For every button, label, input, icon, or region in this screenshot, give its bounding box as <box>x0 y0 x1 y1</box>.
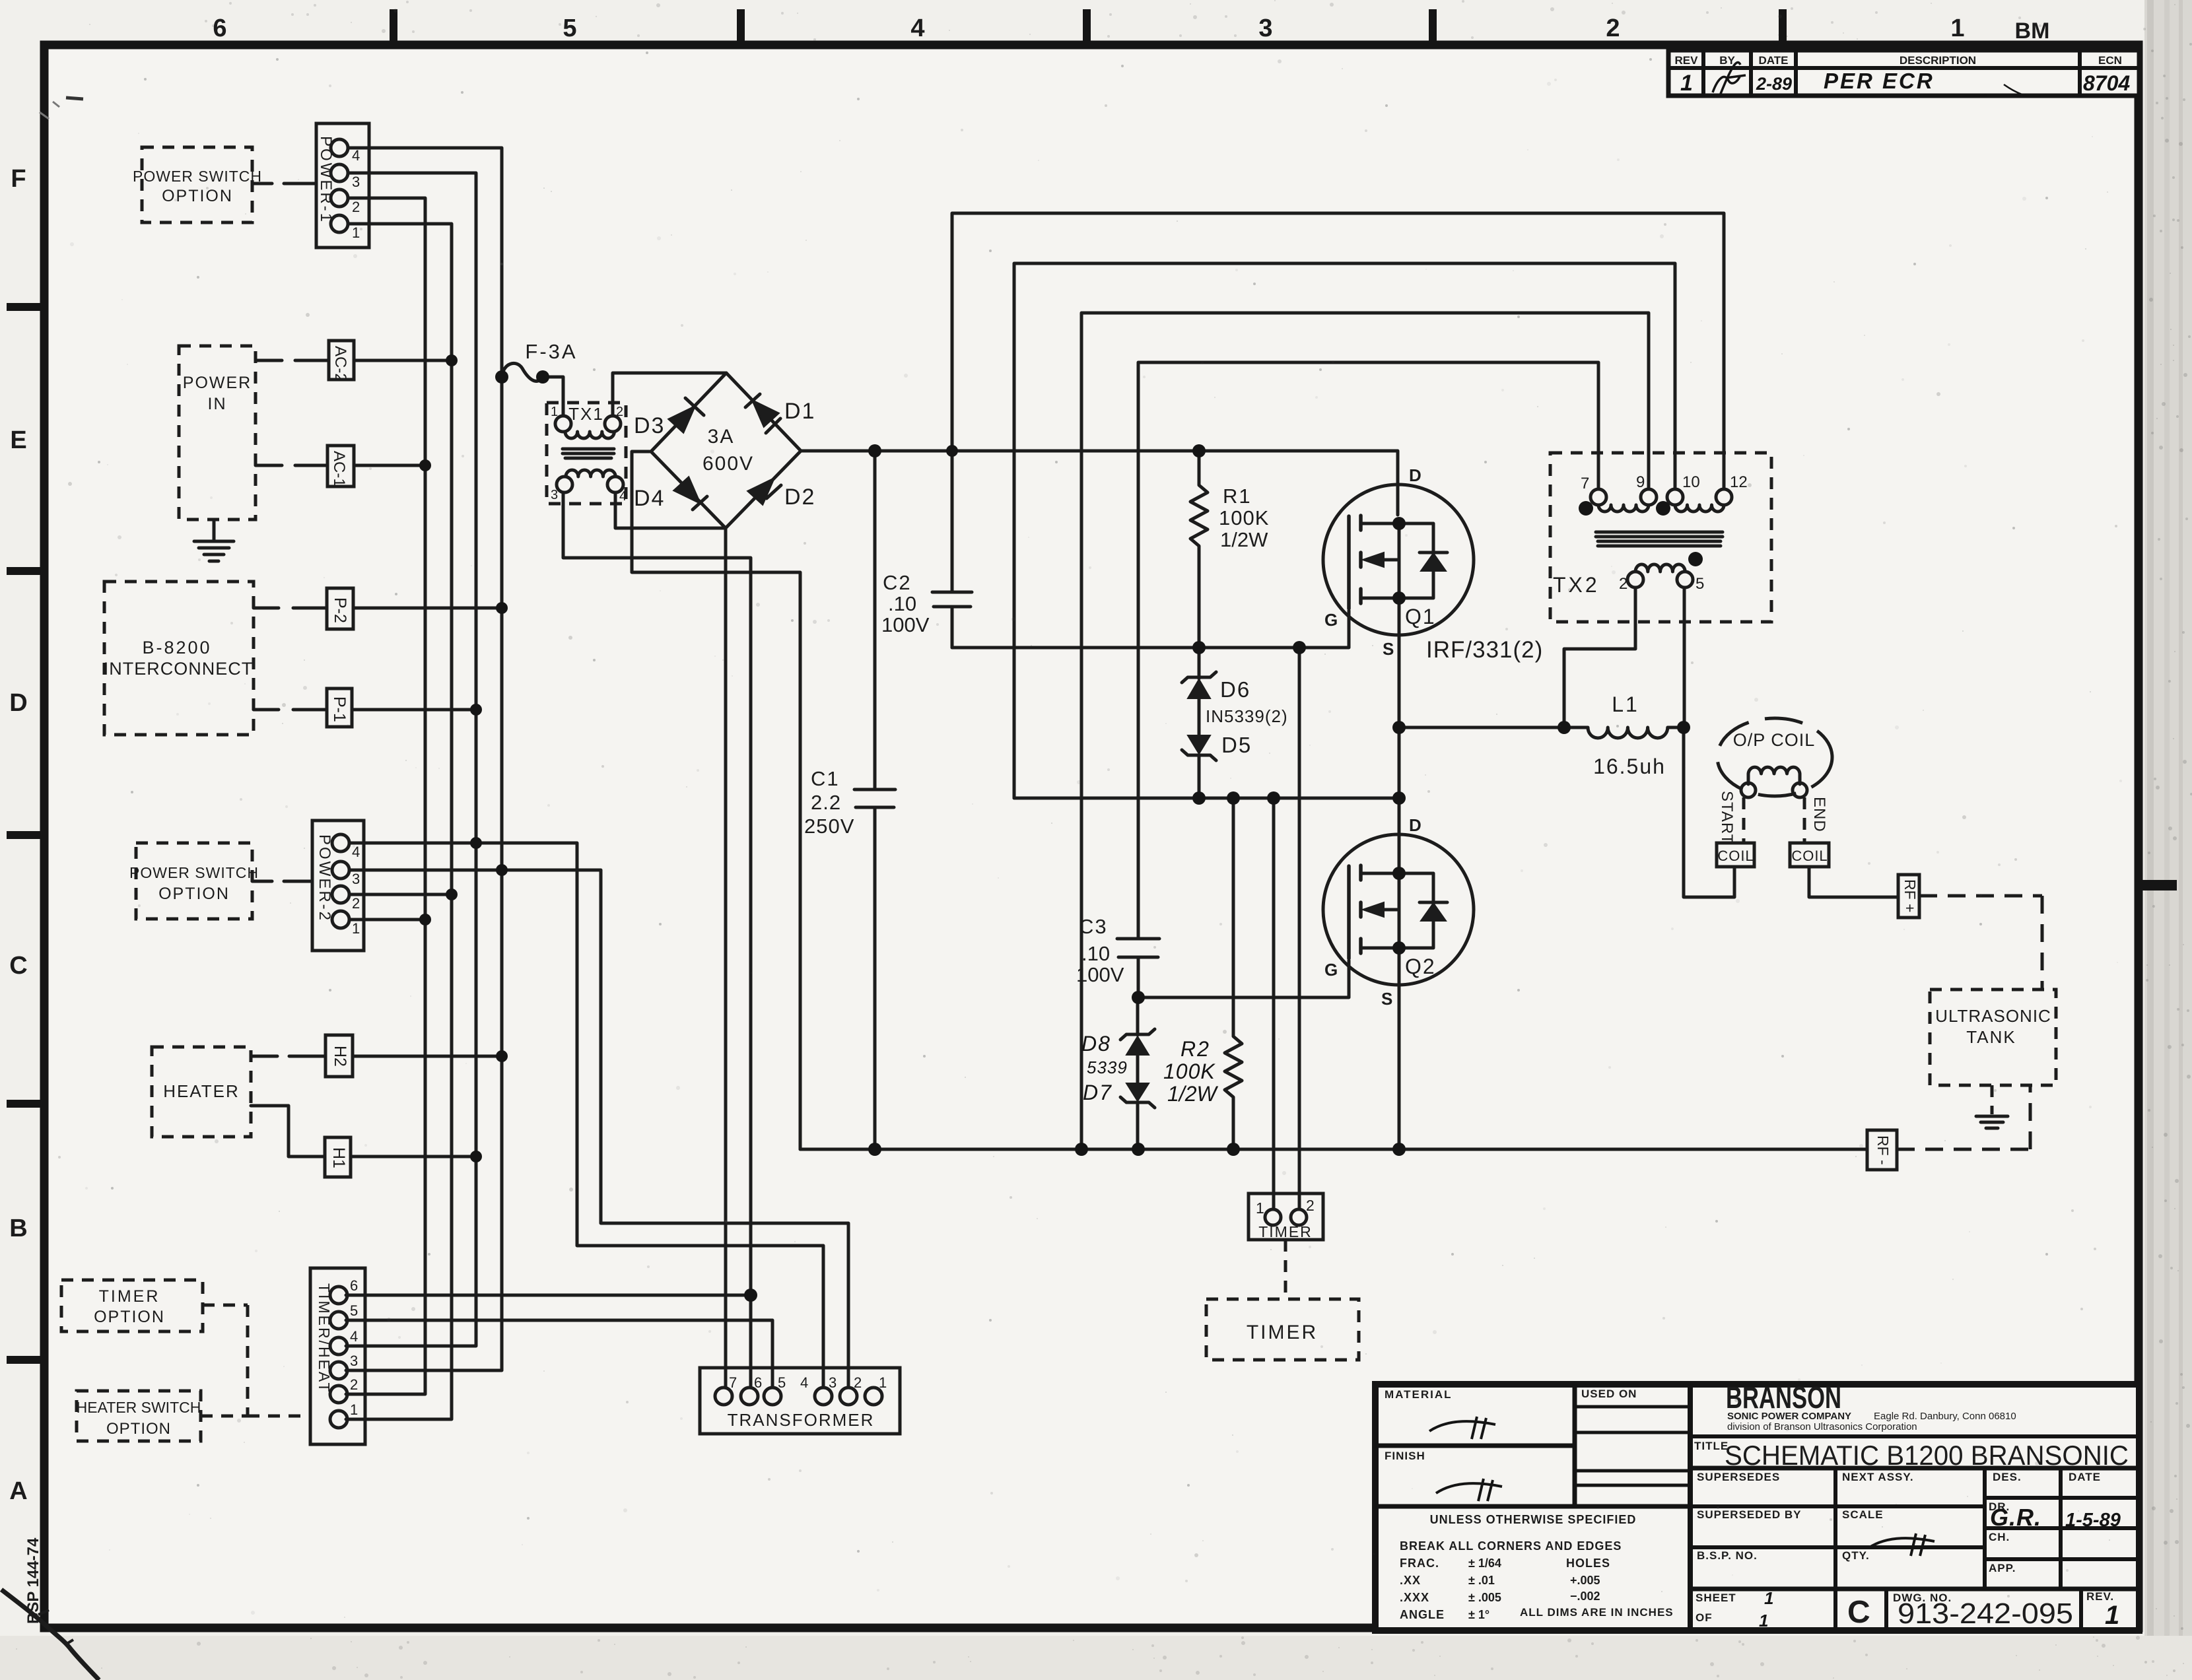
wire AC-1 to bus <box>354 464 425 467</box>
svg-text:HEATER: HEATER <box>163 1081 240 1101</box>
wire POWER-1 pin3 net <box>346 173 476 1346</box>
wire TX1 pin4 to bridge bottom <box>615 492 726 528</box>
svg-text:5339: 5339 <box>1087 1058 1128 1077</box>
svg-text:TIMER: TIMER <box>99 1287 160 1306</box>
terminal P-1 <box>327 689 352 727</box>
HEATER SWITCH OPTION box <box>77 1391 201 1441</box>
svg-text:5: 5 <box>350 1302 358 1319</box>
svg-text:9: 9 <box>1636 473 1645 491</box>
svg-text:TX1: TX1 <box>568 404 604 424</box>
svg-text:C: C <box>9 952 27 980</box>
svg-text:G: G <box>1324 610 1338 630</box>
svg-text:AC-1: AC-1 <box>330 451 348 487</box>
svg-text:1: 1 <box>2105 1601 2119 1630</box>
svg-text:1: 1 <box>352 224 360 241</box>
capacitor C1 <box>804 451 895 1149</box>
svg-text:1: 1 <box>879 1374 887 1391</box>
svg-text:C: C <box>1847 1595 1870 1630</box>
transformer TX2 dashed box <box>1550 453 1771 622</box>
terminal H2 <box>325 1035 353 1077</box>
svg-text:D1: D1 <box>784 399 815 424</box>
diode D1 <box>745 394 815 433</box>
svg-text:USED ON: USED ON <box>1581 1388 1637 1400</box>
svg-text:3: 3 <box>551 488 558 502</box>
svg-text:F-3A: F-3A <box>525 340 577 363</box>
COIL terminal box start <box>1717 843 1754 867</box>
svg-text:913-242-095: 913-242-095 <box>1898 1597 2073 1630</box>
right column lines <box>1983 1468 1987 1589</box>
zone tick top 5/4 <box>737 9 745 41</box>
svg-text:SUPERSEDED BY: SUPERSEDED BY <box>1697 1508 1801 1521</box>
svg-text:POWER-2: POWER-2 <box>316 834 333 922</box>
wire POWER-2 pin2 to bus <box>349 893 452 896</box>
TIMER OPTION box <box>61 1280 203 1331</box>
svg-text:+.005: +.005 <box>1570 1574 1600 1587</box>
svg-text:SUPERSEDES: SUPERSEDES <box>1697 1471 1780 1483</box>
dashed link to TIMER option box <box>1284 1240 1287 1299</box>
scan crease bottom left <box>1 1590 99 1680</box>
wire TIMER/HEAT pin5 to transformer pin5 <box>346 1320 772 1388</box>
END lead dashed <box>1803 797 1806 843</box>
svg-text:3: 3 <box>1258 15 1272 42</box>
svg-text:4: 4 <box>352 147 360 164</box>
svg-text:600V: 600V <box>702 453 754 475</box>
svg-text:± 1/64: ± 1/64 <box>1468 1557 1501 1570</box>
svg-text:OPTION: OPTION <box>94 1308 165 1326</box>
svg-text:DATE: DATE <box>1758 54 1788 67</box>
TX2 phase dot secondary <box>1688 552 1703 566</box>
svg-text:4: 4 <box>350 1328 358 1345</box>
svg-text:E: E <box>10 426 26 454</box>
svg-text:ULTRASONIC: ULTRASONIC <box>1935 1006 2051 1026</box>
wire POWER-2 pin4 to transformer pin3 <box>349 843 823 1388</box>
svg-text:QTY.: QTY. <box>1842 1549 1870 1562</box>
DC minus bus <box>800 1148 1867 1151</box>
wire POWER IN to AC-1 <box>256 464 327 467</box>
svg-text:UNLESS OTHERWISE SPECIFIED: UNLESS OTHERWISE SPECIFIED <box>1430 1513 1637 1526</box>
used-on column rows <box>1575 1405 1690 1409</box>
svg-text:IRF/331(2): IRF/331(2) <box>1426 637 1543 663</box>
svg-text:TIMER/HEAT: TIMER/HEAT <box>316 1283 333 1394</box>
svg-text:D8: D8 <box>1081 1032 1111 1056</box>
svg-text:REV: REV <box>1675 54 1699 67</box>
ULTRASONIC TANK box <box>1930 990 2056 1085</box>
svg-text:D2: D2 <box>784 485 815 510</box>
svg-text:2: 2 <box>350 1376 358 1393</box>
wire Q2 source to DC minus bus <box>1398 948 1401 1149</box>
material/finish column dividers <box>1573 1384 1577 1506</box>
svg-text:2: 2 <box>854 1374 862 1391</box>
svg-text:ANGLE: ANGLE <box>1400 1608 1445 1621</box>
svg-text:2: 2 <box>616 405 623 419</box>
svg-text:3: 3 <box>352 174 360 190</box>
svg-text:POWER SWITCH: POWER SWITCH <box>129 864 259 881</box>
wire TX1 pin3 to transformer pin6 <box>563 492 751 1388</box>
connector POWER-1 <box>316 123 369 248</box>
svg-text:B-8200: B-8200 <box>142 638 211 657</box>
diode D3 <box>634 398 704 438</box>
svg-text:TANK: TANK <box>1966 1027 2016 1047</box>
wire TX2 pin5 to L1 right <box>1683 588 1686 727</box>
svg-text:TIMER: TIMER <box>1247 1322 1318 1343</box>
wire COIL end to RF+ <box>1809 867 1898 897</box>
B-8200 INTERCONNECT box <box>104 582 254 735</box>
svg-text:C3: C3 <box>1079 915 1108 938</box>
O/P coil winding <box>1741 767 1807 797</box>
zener D7 <box>1083 1081 1155 1149</box>
O/P COIL dashed ellipse <box>1717 718 1832 796</box>
zone tick right <box>2139 880 2177 890</box>
wire bridge bottom to transformer pin7 <box>724 528 728 1388</box>
dashed RF+ to tank <box>1919 896 2042 990</box>
diode D4 <box>634 477 707 511</box>
svg-text:2: 2 <box>1306 1197 1315 1214</box>
svg-text:OPTION: OPTION <box>162 187 233 205</box>
svg-text:Q2: Q2 <box>1405 955 1436 978</box>
zone tick top 2/1 <box>1779 9 1787 41</box>
wire PSO2 to POWER-2 <box>252 880 312 883</box>
svg-text:INTERCONNECT: INTERCONNECT <box>104 659 254 679</box>
DC plus bus to Q1 drain <box>801 451 1398 515</box>
svg-text:TIMER: TIMER <box>1258 1223 1313 1240</box>
svg-text:1/2W: 1/2W <box>1220 528 1268 551</box>
zener D5 <box>1182 733 1252 798</box>
svg-text:COIL: COIL <box>1717 848 1754 864</box>
wire HEATER to H2 <box>252 1055 325 1058</box>
TX2 phase dot pin10 <box>1656 501 1670 516</box>
svg-text:2: 2 <box>1606 15 1620 42</box>
svg-text:5: 5 <box>778 1374 786 1391</box>
svg-text:D4: D4 <box>634 486 665 511</box>
wire POWER-1 pin1 net <box>346 224 452 1419</box>
svg-text:4: 4 <box>800 1374 808 1391</box>
signature squiggle finish <box>1436 1479 1502 1501</box>
svg-text:3: 3 <box>829 1374 837 1391</box>
zone tick left B/A <box>7 1356 40 1364</box>
zone tick top 3/2 <box>1429 9 1437 41</box>
svg-text:R1: R1 <box>1223 485 1252 508</box>
svg-text:OPTION: OPTION <box>106 1420 171 1438</box>
terminal AC-2 <box>329 341 354 382</box>
svg-text:3: 3 <box>350 1353 358 1369</box>
transformer TX1 <box>547 403 627 504</box>
svg-text:.10: .10 <box>1081 942 1110 965</box>
svg-text:1: 1 <box>1950 15 1964 42</box>
svg-text:2.2: 2.2 <box>811 791 841 814</box>
TX2 phase dot pin7 <box>1579 501 1593 516</box>
zener D6 <box>1182 648 1250 735</box>
MOSFET Q1 <box>1323 465 1474 659</box>
svg-text:COIL: COIL <box>1791 848 1828 864</box>
svg-text:4: 4 <box>910 15 924 42</box>
revision table <box>1668 50 2139 97</box>
svg-text:1-5-89: 1-5-89 <box>2065 1510 2121 1531</box>
zener D8 <box>1081 997 1155 1083</box>
svg-text:1/2W: 1/2W <box>1167 1082 1218 1106</box>
wire POWER-1 pin2 net <box>346 198 425 1394</box>
dashed link timer option to timer/heat <box>201 1305 310 1416</box>
svg-text:POWER-1: POWER-1 <box>317 136 335 224</box>
svg-text:8704: 8704 <box>2083 71 2130 95</box>
TIMER option box (dashed) <box>1206 1299 1359 1360</box>
ground for POWER IN <box>194 520 234 561</box>
connector TIMER/HEAT <box>310 1268 365 1444</box>
svg-text:DES.: DES. <box>1993 1471 2022 1483</box>
wire timer pin1 drop <box>1272 798 1276 1209</box>
terminal AC-1 <box>327 446 354 487</box>
svg-text:12: 12 <box>1730 473 1748 491</box>
svg-text:S: S <box>1383 639 1394 659</box>
svg-text:BREAK ALL CORNERS AND EDGES: BREAK ALL CORNERS AND EDGES <box>1400 1539 1622 1553</box>
svg-text:D5: D5 <box>1221 733 1252 757</box>
POWER SWITCH OPTION box (top) <box>133 147 262 222</box>
svg-text:6: 6 <box>754 1374 762 1391</box>
svg-text:CH.: CH. <box>1989 1531 2010 1543</box>
svg-text:S: S <box>1381 989 1392 1009</box>
wire TX1 pin2 to bridge top <box>613 373 726 416</box>
terminal RF- <box>1867 1130 1897 1170</box>
middle column lines <box>1690 1504 1985 1508</box>
TIMER terminal box <box>1249 1193 1323 1240</box>
svg-text:F: F <box>11 165 26 193</box>
fuse F-3A <box>502 340 578 381</box>
svg-text:B.S.P. NO.: B.S.P. NO. <box>1697 1549 1758 1562</box>
svg-text:.XX: .XX <box>1400 1574 1421 1587</box>
wire TIMER/HEAT pin6 to transformer pin6 wire <box>346 1294 751 1297</box>
smudge top left <box>66 98 83 99</box>
capacitor C3 <box>1076 915 1159 997</box>
wire H1 to bus <box>351 1155 476 1159</box>
dashed RF- to tank <box>1897 1085 2030 1149</box>
zone tick top 4/3 <box>1083 9 1091 41</box>
POWER IN box <box>179 346 256 520</box>
svg-text:BM: BM <box>2015 18 2050 44</box>
tank ground <box>1976 1085 2008 1128</box>
svg-text:7: 7 <box>729 1374 737 1391</box>
wire PSO1 to POWER-1 <box>252 182 316 185</box>
svg-text:D6: D6 <box>1220 677 1250 702</box>
svg-text:D: D <box>9 689 27 717</box>
zone tick left D/C <box>7 831 40 839</box>
wire POWER IN to AC-2 <box>256 359 329 362</box>
wire H2 to bus <box>353 1055 502 1058</box>
resistor R2 <box>1163 798 1242 1149</box>
svg-text:TRANSFORMER: TRANSFORMER <box>728 1410 875 1430</box>
svg-text:BRANSON: BRANSON <box>1726 1380 1841 1415</box>
svg-text:H2: H2 <box>331 1046 349 1067</box>
svg-text:FINISH: FINISH <box>1385 1450 1425 1462</box>
svg-text:G: G <box>1324 960 1338 980</box>
connector TRANSFORMER <box>700 1368 900 1434</box>
svg-text:D3: D3 <box>634 413 665 438</box>
wire HEATER to H1 <box>251 1106 325 1157</box>
svg-text:division of Branson Ultrasonic: division of Branson Ultrasonics Corporat… <box>1727 1421 1917 1432</box>
svg-text:5: 5 <box>563 15 576 42</box>
svg-text:OPTION: OPTION <box>158 885 230 903</box>
HEATER box <box>152 1047 251 1137</box>
zone tick left E/D <box>7 567 40 575</box>
svg-text:C2: C2 <box>883 571 912 594</box>
svg-text:1: 1 <box>551 405 558 419</box>
svg-text:PER ECR: PER ECR <box>1824 69 1935 93</box>
svg-text:16.5uh: 16.5uh <box>1593 755 1666 778</box>
svg-text:100V: 100V <box>1076 963 1124 986</box>
svg-text:D7: D7 <box>1083 1081 1113 1104</box>
svg-text:NEXT ASSY.: NEXT ASSY. <box>1842 1471 1914 1483</box>
svg-text:7: 7 <box>1581 475 1589 492</box>
svg-text:3: 3 <box>352 871 360 887</box>
svg-text:A: A <box>9 1477 27 1505</box>
svg-text:END: END <box>1810 797 1828 832</box>
bottom scan band <box>0 1636 2192 1680</box>
wire timer pin2 drop <box>1298 648 1301 1209</box>
svg-text:FRAC.: FRAC. <box>1400 1557 1439 1570</box>
svg-text:POWER SWITCH: POWER SWITCH <box>133 168 262 185</box>
svg-text:250V: 250V <box>804 815 854 838</box>
svg-text:H1: H1 <box>329 1147 348 1168</box>
POWER SWITCH OPTION box (second) <box>129 843 259 919</box>
svg-text:6: 6 <box>350 1277 358 1294</box>
zone tick left C/B <box>7 1100 40 1108</box>
svg-text:DATE: DATE <box>2069 1471 2101 1483</box>
svg-text:1: 1 <box>1764 1588 1773 1608</box>
wire fuse to TX1 pin1 <box>543 377 563 415</box>
svg-text:HOLES: HOLES <box>1566 1557 1610 1570</box>
svg-text:B: B <box>9 1215 27 1242</box>
svg-text:2-89: 2-89 <box>1756 74 1792 94</box>
connector POWER-2 <box>312 821 364 951</box>
svg-text:± .005: ± .005 <box>1468 1591 1501 1604</box>
svg-text:TX2: TX2 <box>1553 573 1600 597</box>
svg-text:START: START <box>1718 791 1736 844</box>
svg-text:APP.: APP. <box>1989 1562 2016 1574</box>
svg-text:D: D <box>1409 815 1421 835</box>
svg-text:2: 2 <box>352 895 360 912</box>
terminal H1 <box>325 1137 351 1177</box>
svg-text:D: D <box>1409 465 1421 485</box>
wire bridge left corner to DC minus bus <box>632 452 800 1149</box>
svg-text:RF +: RF + <box>1901 879 1919 912</box>
svg-text:4: 4 <box>619 489 627 504</box>
svg-text:Eagle Rd. Danbury, Conn 06810: Eagle Rd. Danbury, Conn 06810 <box>1874 1411 2016 1422</box>
svg-text:1: 1 <box>1759 1611 1768 1630</box>
svg-text:2: 2 <box>352 199 360 215</box>
svg-text:3A: 3A <box>708 426 735 448</box>
resistor R1 <box>1190 451 1269 648</box>
svg-text:6: 6 <box>213 15 226 42</box>
wire POWER-2 pin3 to transformer pin2 <box>349 870 848 1388</box>
wire TX2 pin9 to DC minus bus <box>1081 313 1649 1149</box>
svg-text:BY: BY <box>1719 54 1735 67</box>
svg-text:C1: C1 <box>811 767 840 790</box>
svg-text:SONIC POWER COMPANY: SONIC POWER COMPANY <box>1727 1411 1851 1422</box>
source line of Q1 <box>1014 797 1399 800</box>
svg-text:HEATER SWITCH: HEATER SWITCH <box>77 1399 201 1416</box>
svg-text:100K: 100K <box>1163 1059 1216 1083</box>
title row lines <box>1690 1434 2139 1438</box>
svg-text:−.002: −.002 <box>1570 1590 1600 1603</box>
svg-text:P-1: P-1 <box>330 696 349 722</box>
svg-text:OF: OF <box>1695 1611 1713 1624</box>
svg-text:AC-2: AC-2 <box>331 346 349 382</box>
svg-text:.XXX: .XXX <box>1400 1591 1429 1604</box>
wire TX2 pin7 to C3 <box>1138 362 1598 939</box>
svg-text:1: 1 <box>1256 1199 1264 1217</box>
wire TX2 pin10 to source line <box>1014 263 1675 798</box>
wire B-8200 to P-1 dashed <box>254 708 327 712</box>
gate wire of Q2 <box>1138 960 1349 997</box>
svg-text:ALL DIMS ARE IN INCHES: ALL DIMS ARE IN INCHES <box>1520 1606 1674 1619</box>
wire TX2 pin2 to L1 left <box>1564 588 1635 727</box>
wire POWER-1 pin4 net (fuse net) <box>346 148 502 1370</box>
wire Q1 source to Q2 drain <box>1398 598 1401 873</box>
svg-text:L1: L1 <box>1612 692 1639 716</box>
MOSFET Q2 <box>1323 815 1474 1009</box>
wire AC-2 to bus <box>354 359 452 362</box>
svg-text:SCALE: SCALE <box>1842 1508 1884 1521</box>
terminal P-2 <box>327 588 353 629</box>
signature squiggle scale <box>1868 1533 1935 1556</box>
svg-text:1: 1 <box>1680 71 1693 96</box>
right scan band <box>2144 0 2192 1680</box>
wire half-bridge midpoint to L1 <box>1399 726 1564 729</box>
svg-text:IN: IN <box>208 395 227 413</box>
TX2 windings <box>1553 473 1748 597</box>
svg-text:G.R.: G.R. <box>1990 1504 2041 1531</box>
START lead dashed <box>1742 797 1746 843</box>
wire P-1 to bus <box>352 708 476 712</box>
title block <box>1375 1380 2139 1630</box>
svg-text:TITLE: TITLE <box>1694 1440 1729 1452</box>
gate bus of Q1 <box>952 611 1349 648</box>
svg-text:SCHEMATIC B1200 BRANSONIC: SCHEMATIC B1200 BRANSONIC <box>1725 1440 2129 1471</box>
svg-text:1: 1 <box>350 1401 358 1418</box>
signature squiggle material <box>1429 1417 1495 1439</box>
svg-text:.10: .10 <box>888 592 916 615</box>
svg-text:IN5339(2): IN5339(2) <box>1206 706 1288 726</box>
wire B-8200 to P-2 dashed <box>254 607 327 610</box>
wire POWER-2 pin1 to bus <box>349 918 425 922</box>
diode D2 <box>748 479 815 510</box>
scan speckles <box>98 51 2048 1553</box>
inductor L1 <box>1564 692 1684 778</box>
wire P-2 to bus <box>353 607 502 610</box>
svg-text:10: 10 <box>1682 473 1700 491</box>
svg-text:± 1°: ± 1° <box>1468 1608 1490 1621</box>
COIL terminal box end <box>1790 843 1829 867</box>
wire TX2 pin12 to DC plus bus and C2 <box>952 213 1724 592</box>
zone tick top 6/5 <box>390 9 397 41</box>
svg-text:POWER: POWER <box>183 374 252 392</box>
svg-text:R2: R2 <box>1181 1037 1210 1061</box>
bridge rectifier diamond 3A 600V <box>651 373 801 528</box>
bottom row dividers <box>1833 1589 1837 1630</box>
svg-text:100V: 100V <box>881 613 930 636</box>
svg-text:RF -: RF - <box>1874 1135 1892 1165</box>
svg-text:100K: 100K <box>1219 506 1269 529</box>
svg-text:ECN: ECN <box>2098 54 2122 67</box>
svg-text:MATERIAL: MATERIAL <box>1385 1388 1453 1401</box>
capacitor C2 <box>881 571 972 648</box>
wire L1 right to COIL start <box>1684 727 1734 897</box>
svg-text:± .01: ± .01 <box>1468 1574 1495 1587</box>
svg-text:SHEET: SHEET <box>1695 1592 1736 1604</box>
svg-text:O/P COIL: O/P COIL <box>1733 730 1816 750</box>
svg-text:2: 2 <box>1619 575 1627 593</box>
svg-text:Q1: Q1 <box>1405 605 1436 628</box>
terminal RF+ <box>1898 875 1919 918</box>
zone tick left F/E <box>7 303 40 311</box>
